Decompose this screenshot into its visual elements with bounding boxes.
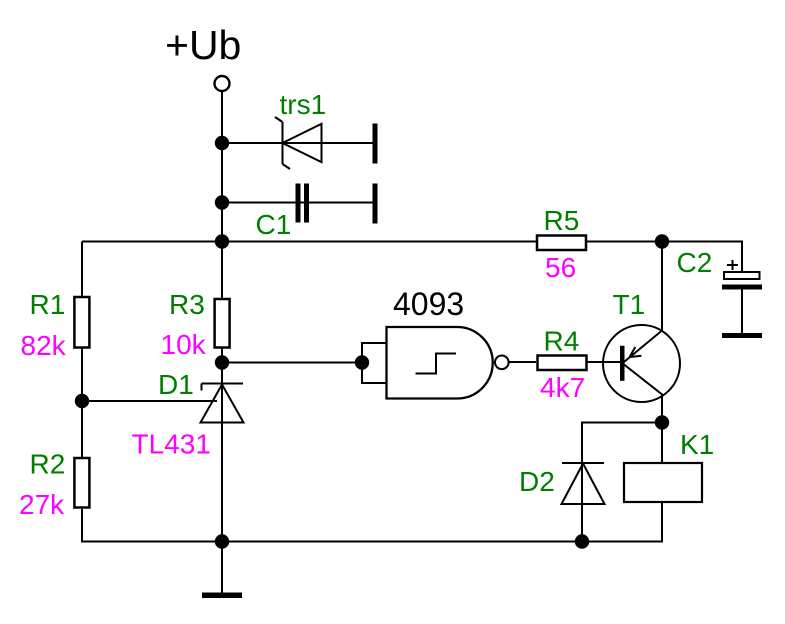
svg-text:R1: R1 [30, 289, 66, 320]
node junction ground [215, 534, 229, 548]
wire R1 to R2 [81, 349, 83, 458]
svg-text:T1: T1 [613, 289, 646, 320]
terminal bar right of trs1 [373, 124, 378, 164]
resistor R4 [538, 356, 587, 371]
resistor R1 [74, 297, 89, 348]
diode D2 [562, 463, 605, 542]
node junction at C1 row [215, 195, 229, 209]
svg-text:R3: R3 [169, 289, 205, 320]
node junction D2 bottom [575, 534, 589, 548]
wire vertical main branch from +Ub down to R3 [221, 92, 223, 299]
wire R3 bottom to junction to D1 [221, 348, 223, 384]
svg-text:D2: D2 [519, 466, 555, 497]
node +Ub terminal circle [215, 76, 230, 91]
svg-text:4k7: 4k7 [540, 372, 585, 403]
transil trs1 [275, 117, 322, 169]
wire bottom rail right and up to K1 [582, 503, 662, 542]
transistor T1 [603, 325, 680, 402]
node junction top rail at T1 emitter [655, 234, 669, 248]
gate U1 output bubble [495, 356, 509, 370]
node junction at trs1 row [215, 136, 229, 150]
wire R5 right to C2 corner [587, 242, 742, 272]
wire emitter up [661, 242, 663, 332]
ground [202, 593, 242, 599]
wire collector down [661, 394, 663, 463]
wire collector to D2 [582, 423, 662, 464]
gate U1 4093 body [387, 327, 493, 399]
node junction collector [655, 415, 669, 429]
node junction top rail at main branch [215, 234, 229, 248]
wire D1 through to bottom rail and ground stem [221, 384, 223, 593]
svg-text:27k: 27k [19, 489, 65, 520]
svg-text:TL431: TL431 [132, 429, 211, 460]
capacitor C2 [722, 260, 762, 338]
wire left branch [81, 242, 83, 297]
svg-text:10k: 10k [161, 329, 207, 360]
node junction divider [75, 394, 89, 408]
wire gate input [222, 362, 362, 364]
resistor R5 [537, 236, 586, 251]
svg-text:C2: C2 [677, 247, 713, 278]
diode D1 TL431 [201, 384, 244, 423]
svg-text:R4: R4 [544, 326, 580, 357]
svg-text:K1: K1 [680, 429, 714, 460]
terminal bar right of C1 [373, 184, 378, 224]
wire TL431 reference [82, 400, 217, 402]
capacitor C1 [296, 184, 310, 223]
gate U1 schmitt symbol [416, 354, 457, 374]
svg-text:56: 56 [545, 252, 576, 283]
svg-text:R5: R5 [544, 205, 580, 236]
svg-text:+Ub: +Ub [165, 22, 241, 68]
svg-text:82k: 82k [21, 330, 67, 361]
svg-text:trs1: trs1 [280, 89, 327, 120]
resistor R3 [215, 299, 230, 348]
node junction R3 bottom [215, 355, 229, 369]
wire left branch bottom [82, 509, 582, 542]
svg-text:D1: D1 [158, 369, 194, 400]
wire gate input stubs [362, 343, 387, 383]
wire trs1 row [222, 142, 373, 144]
wire C1 row [222, 202, 373, 204]
svg-text:C1: C1 [256, 209, 292, 240]
svg-text:R2: R2 [30, 449, 66, 480]
node junction gate input tie [355, 355, 369, 369]
svg-text:4093: 4093 [393, 286, 464, 322]
wire gate output to R4 [509, 361, 536, 363]
wire R4 to base [588, 361, 621, 363]
wire top rail [82, 241, 536, 243]
relay K1 [624, 463, 702, 502]
resistor R2 [74, 458, 89, 508]
